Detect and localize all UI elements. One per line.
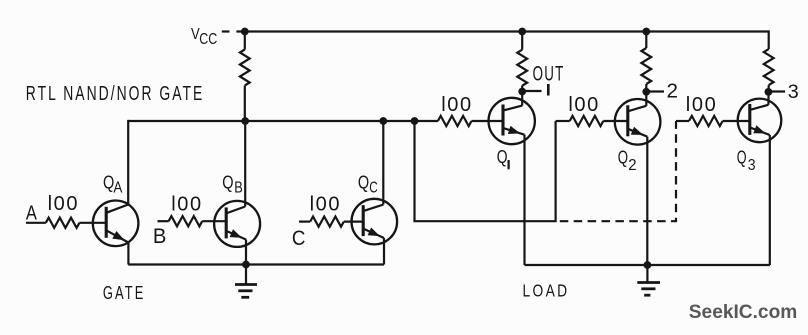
resistor R2 100	[438, 116, 472, 126]
wire input C lead	[299, 221, 310, 223]
transistor Q1 emitter stroke	[503, 128, 525, 135]
node rail-R6 junction	[642, 28, 650, 36]
resistor RB 100	[169, 216, 203, 226]
wire QC emitter drop	[383, 238, 385, 265]
transistor Q2 base bar	[626, 105, 629, 136]
svg-text:B: B	[234, 180, 243, 197]
transistor Q1 collector stroke	[503, 106, 522, 111]
svg-text:Q: Q	[737, 148, 747, 168]
transistor Q2 emitter stroke	[628, 129, 648, 137]
transistor QC collector stroke	[363, 205, 383, 212]
svg-text:LOAD: LOAD	[523, 281, 570, 301]
transistor QA emitter arrow	[112, 231, 124, 240]
wire gate output bus y=121	[128, 120, 438, 122]
resistor R4 100	[689, 116, 723, 126]
wire RA to QA base	[79, 222, 106, 224]
transistor QC circle	[352, 199, 398, 245]
transistor Q3 emitter stroke	[750, 127, 770, 135]
transistor Q1 circle	[489, 98, 535, 144]
wire QB emitter drop	[245, 240, 247, 265]
wire load riser 1 (output to Q2 base path)	[415, 121, 556, 221]
wire QA collector riser	[127, 120, 129, 205]
svg-text:SeekIC.com: SeekIC.com	[689, 302, 798, 323]
svg-text:l00: l00	[686, 94, 718, 116]
svg-text:3: 3	[788, 82, 799, 103]
node output 2	[642, 88, 650, 96]
resistor R5 (Q1 collector load)	[521, 32, 523, 50]
node output-load riser junction	[411, 117, 419, 125]
resistor RC 100	[310, 217, 344, 227]
transistor QA base bar	[105, 207, 108, 238]
transistor Q2 collector stroke	[628, 106, 647, 112]
wire Q1 emitter drop	[523, 135, 525, 265]
wire dashed extension to Q3 base	[560, 121, 676, 221]
transistor QB collector stroke	[226, 207, 245, 214]
transistor Q3 emitter arrow	[753, 125, 765, 133]
wire QC collector riser	[382, 121, 384, 205]
svg-text:Q: Q	[358, 172, 369, 192]
wire load emitter rail	[525, 264, 770, 266]
transistor QA collector stroke	[106, 205, 128, 213]
svg-text:GATE: GATE	[103, 282, 145, 303]
ground (gate)	[235, 265, 257, 298]
wire R3 to Q2 base	[603, 120, 628, 122]
transistor QC base bar	[362, 205, 365, 236]
resistor R1 (gate collector load)	[244, 32, 246, 50]
node output-R1 junction	[241, 117, 249, 125]
wire dashed top to R4	[676, 120, 689, 122]
wire Vcc top rail	[236, 30, 768, 32]
node output-QC collector junction	[379, 117, 387, 125]
wire Q2 emitter drop	[646, 137, 648, 265]
resistor R7 (Q3 collector load)	[768, 30, 770, 49]
wire input B lead	[158, 220, 169, 222]
svg-text:A: A	[26, 203, 38, 225]
node rail-R1 junction	[241, 28, 249, 36]
resistor R6 (Q2 collector load)	[645, 32, 647, 49]
transistor Q2 circle	[615, 99, 661, 145]
wire gate emitter rail	[128, 263, 384, 265]
wire R2 to Q1 base	[472, 120, 504, 122]
svg-text:2: 2	[628, 157, 636, 174]
transistor QB emitter arrow	[230, 229, 242, 238]
wire OUT 1 tick	[522, 90, 541, 92]
transistor Q1 emitter arrow	[508, 126, 520, 134]
transistor QC emitter arrow	[368, 228, 380, 237]
svg-text:l00: l00	[310, 194, 342, 216]
wire input A lead	[26, 222, 46, 224]
wire output 3 tick	[768, 90, 785, 92]
svg-text:C: C	[369, 180, 378, 197]
svg-text:l00: l00	[568, 94, 600, 116]
node gate ground junction	[242, 261, 250, 269]
svg-text:Q: Q	[497, 147, 508, 167]
wire QA emitter drop	[127, 243, 129, 265]
transistor QB emitter stroke	[226, 231, 246, 240]
wire QB collector riser	[244, 121, 246, 207]
svg-text:2: 2	[667, 81, 679, 103]
wire Vcc tick	[222, 30, 230, 32]
transistor Q3 circle	[738, 99, 782, 143]
node rail-R5 junction	[518, 28, 526, 36]
svg-text:RTL NAND/NOR GATE: RTL NAND/NOR GATE	[26, 82, 205, 105]
transistor Q3 collector stroke	[750, 105, 769, 110]
transistor Q1 base bar	[501, 105, 504, 136]
svg-text:OUT: OUT	[533, 62, 565, 85]
node OUT 1	[518, 88, 526, 96]
svg-text:Q: Q	[222, 172, 233, 192]
label 1	[547, 84, 550, 96]
wire Q3 emitter drop	[769, 135, 771, 265]
wire R4 to Q3 base	[723, 120, 750, 122]
svg-text:B: B	[153, 225, 167, 248]
wire output 2 tick	[646, 90, 664, 92]
transistor Q3 base bar	[748, 104, 751, 135]
svg-text:l00: l00	[48, 193, 80, 215]
svg-text:l00: l00	[171, 193, 203, 215]
svg-text:3: 3	[748, 157, 756, 174]
svg-text:C: C	[292, 227, 306, 250]
transistor QA emitter stroke	[106, 230, 128, 242]
resistor RA 100	[46, 218, 80, 228]
svg-text:l00: l00	[441, 94, 473, 116]
wire riser to R3	[556, 120, 570, 122]
node output 3	[765, 88, 773, 96]
transistor Q2 emitter arrow	[631, 127, 643, 135]
node load ground junction	[644, 261, 652, 269]
svg-text:A: A	[113, 180, 123, 197]
resistor R3 100	[570, 116, 604, 126]
transistor QC emitter stroke	[363, 229, 384, 238]
wire RC to QC base	[344, 221, 363, 223]
wire RB to QB base	[202, 220, 226, 222]
svg-text:Q: Q	[618, 148, 628, 168]
transistor QB base bar	[225, 207, 228, 238]
transistor QA circle	[93, 201, 139, 247]
ground (load)	[637, 265, 660, 295]
transistor QB circle	[214, 201, 260, 247]
svg-text:CC: CC	[199, 31, 217, 48]
